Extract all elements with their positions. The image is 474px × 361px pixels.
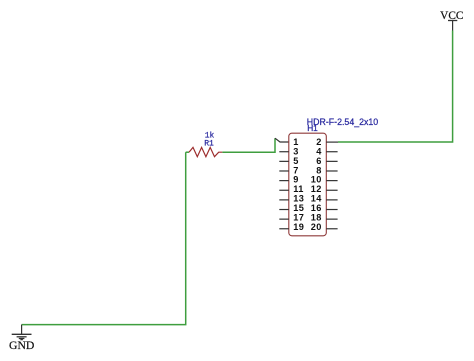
- svg-text:VCC: VCC: [440, 10, 463, 22]
- svg-text:19: 19: [293, 222, 304, 232]
- svg-text:H1: H1: [307, 123, 318, 133]
- svg-text:20: 20: [311, 222, 322, 232]
- svg-text:R1: R1: [204, 139, 214, 148]
- svg-text:GND: GND: [9, 339, 34, 352]
